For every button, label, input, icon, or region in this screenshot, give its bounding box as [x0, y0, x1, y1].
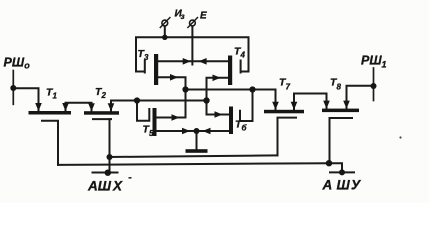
svg-text:2: 2: [101, 91, 107, 100]
svg-text:1: 1: [53, 92, 58, 101]
svg-text:5: 5: [149, 129, 154, 138]
svg-text:3: 3: [144, 53, 149, 62]
svg-text:Ш: Ш: [337, 178, 351, 193]
svg-text:4: 4: [240, 50, 246, 59]
svg-text:У: У: [351, 178, 361, 193]
svg-text:о: о: [24, 61, 30, 71]
svg-text:Е: Е: [200, 10, 207, 21]
svg-text:з: з: [181, 12, 185, 21]
svg-text:7: 7: [286, 82, 291, 91]
svg-text:РШ: РШ: [361, 54, 382, 68]
svg-text:8: 8: [337, 82, 342, 91]
svg-text:1: 1: [382, 59, 387, 69]
svg-text:Х: Х: [112, 179, 123, 194]
svg-text:А: А: [322, 178, 333, 193]
svg-text:РШ: РШ: [4, 56, 25, 70]
svg-text:б: б: [242, 124, 248, 133]
svg-text:АШ: АШ: [87, 179, 112, 194]
